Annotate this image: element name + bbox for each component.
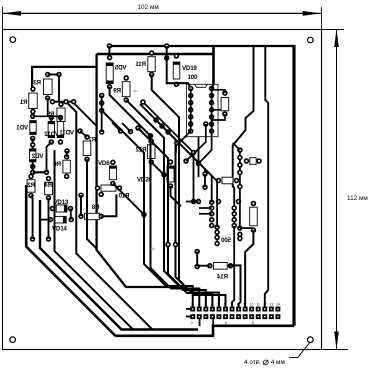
svg-text:2: 2 (198, 302, 200, 306)
svg-text:12: 12 (263, 302, 267, 306)
svg-text:102 мм: 102 мм (138, 4, 159, 11)
svg-text:R4: R4 (44, 182, 52, 189)
resistor R13 (221, 90, 229, 116)
wire: right meander long (265, 46, 268, 307)
wire: IC feed thick (212, 46, 215, 84)
node pad right of trace y46 (164, 43, 170, 49)
wire stub (112, 123, 121, 132)
node pad b2 (159, 123, 165, 129)
wire diode tops net y=117 (33, 115, 61, 117)
node pad column U3 left (214, 224, 220, 246)
diode VD1 (16, 114, 36, 142)
diode VD6 (98, 160, 116, 187)
wire pad109 to VD5 (108, 46, 110, 58)
wire: upper-left bus y=67 (32, 67, 97, 89)
node pad column U2 right (231, 203, 237, 228)
resistor R4 (44, 176, 53, 201)
diode VD13 (50, 199, 74, 212)
connector pin numbers bottom (191, 321, 254, 325)
resistor R16 (244, 158, 262, 165)
node pad (130.5,131.5) (128, 129, 134, 135)
resistor R6 (53, 154, 71, 179)
node pad b1 (153, 117, 159, 123)
wire x59 down (58, 75, 60, 102)
svg-text:7: 7 (230, 302, 232, 306)
wire: pad-to-pad trace y=46 (97, 53, 214, 55)
svg-text:5: 5 (217, 302, 219, 306)
resistor R15 (250, 201, 258, 233)
IC U1 body (187, 84, 219, 136)
wire IC pin mid down-left (186, 124, 206, 161)
wire x101.7 ext (101, 111, 103, 133)
wire long strand to pad column (143, 102, 194, 202)
pads column x=101.7 (99, 93, 105, 99)
svg-text:R3: R3 (33, 80, 41, 87)
wire bundle v5 (140, 104, 219, 307)
node pad (30, 142, 36, 148)
svg-text:VD13: VD13 (54, 199, 69, 206)
svg-text:6: 6 (225, 321, 227, 325)
node pad strand top (140, 99, 146, 105)
wire (80, 195, 82, 216)
wire node x166.7 down (164, 55, 170, 61)
wire U3 right to R15 bottom (240, 227, 253, 229)
wire strand b1 (156, 120, 205, 174)
svg-text:8: 8 (237, 302, 239, 306)
svg-text:8: 8 (252, 321, 254, 325)
board outline (3, 30, 322, 350)
wire IC left column feed (190, 89, 192, 132)
wire R3 bottom down (47, 98, 49, 116)
wire VD11 top stub (60, 116, 62, 121)
resistor R14 (207, 263, 233, 281)
wire bundle v4 (138, 128, 212, 307)
wire VD2 bottom to pad (32, 162, 34, 173)
wire y=201.5 (186, 201, 199, 203)
svg-text:R7: R7 (88, 137, 96, 144)
svg-text:VD12: VD12 (44, 131, 59, 138)
svg-text:41v: 41v (133, 89, 139, 93)
svg-text:VD1: VD1 (16, 125, 28, 132)
svg-text:VD2: VD2 (31, 153, 43, 160)
svg-text:R1: R1 (19, 99, 27, 106)
node pad column U3 right (237, 225, 243, 241)
svg-text:100: 100 (188, 74, 198, 81)
svg-text:VD11: VD11 (59, 129, 74, 136)
svg-text:VD6: VD6 (98, 160, 110, 167)
node pads y=201.5 (191, 199, 197, 205)
svg-text:41v: 41v (130, 200, 136, 204)
dimension extension line right (321, 7, 323, 30)
svg-text:R6: R6 (53, 161, 61, 168)
wire x88 from R7 (87, 159, 97, 248)
wire bundle v3 (126, 100, 206, 307)
svg-text:R2: R2 (27, 182, 35, 189)
svg-text:VD19: VD19 (182, 65, 197, 72)
node pad (44, 170, 50, 176)
resistor R7 (83, 134, 96, 162)
node pad pair x=205 (202, 171, 208, 190)
wire between (196, 252, 198, 267)
connector XP1 row 2 (190, 314, 280, 319)
diode VD19 (173, 53, 197, 87)
wire strand b3 (168, 132, 217, 227)
wire pair to R14 left (197, 265, 210, 267)
svg-text:13: 13 (270, 302, 274, 306)
resistor R5 (46, 102, 65, 128)
wire R4 bottom to via (48, 198, 50, 239)
wire from node to VD19 (166, 46, 168, 82)
wire: meander from top bus (233, 46, 254, 203)
node pad (71, 99, 77, 105)
dimension extension line bottom-right (322, 349, 349, 351)
wire x198.5 vertical (198, 137, 200, 177)
diode VD14 (48, 216, 74, 232)
svg-text:500: 500 (221, 237, 231, 244)
node via on v5 (173, 242, 179, 248)
wire stub (122, 123, 131, 132)
svg-text:3: 3 (204, 302, 206, 306)
diode VD2 (30, 149, 44, 169)
wire VD12 bottom to pad46 (47, 142, 52, 172)
svg-text:VD5: VD5 (114, 65, 126, 72)
wire diag center f (151, 162, 164, 175)
resistor R3 (33, 72, 52, 101)
wire VD14 left pad to Q (40, 219, 51, 221)
resistor R12 (135, 138, 155, 165)
wire diag center e (113, 184, 144, 215)
wire: bottom bus with step (115, 326, 294, 336)
wire (66, 151, 68, 157)
svg-text:1: 1 (191, 302, 193, 306)
dimension line 112 mm (334, 29, 339, 350)
node pad x59 (56, 72, 62, 78)
node pad b3 (165, 129, 171, 135)
node pad v4 top (135, 125, 141, 131)
wire IC pin right to meander (212, 109, 221, 111)
node via cluster midfield (141, 133, 201, 217)
mounting hole top-left (10, 37, 16, 43)
wire R13 top to IC (212, 90, 225, 93)
resistor R10 (95, 185, 130, 200)
wire R2 bottom to via (31, 196, 33, 240)
svg-text:R14: R14 (216, 274, 228, 281)
wire VD12 top stub (50, 116, 52, 121)
wire U2 feeds from left (199, 207, 212, 209)
wire: left long bus x=97 (97, 54, 186, 287)
node pads pair (194, 249, 200, 255)
wire: diagonal d3 (55, 150, 134, 330)
wire y=101.7 row (53, 101, 76, 103)
wire x=101.7 (101, 96, 103, 111)
wire R13 bottom (212, 114, 225, 120)
node pad chain x=239.9 (237, 147, 243, 228)
resistor R1 (19, 86, 37, 114)
resistor R2 (27, 174, 35, 199)
diode VD11 (57, 115, 74, 145)
node pad (98, 192, 104, 198)
wire R15 bottom down (245, 230, 253, 306)
wire VD13-VD14 right pads (70, 209, 72, 220)
wire (80, 131, 87, 137)
wire connector stubs down (199, 319, 201, 326)
dimension extension line top-right (322, 29, 345, 31)
diode VD5 (106, 55, 126, 90)
wire bundle v6 (152, 75, 226, 307)
svg-text:R11: R11 (135, 61, 146, 68)
node pad (120.5,131) (118, 128, 124, 134)
wire bundle to connector: v1 (102, 111, 193, 307)
wire: diagonal P from left column (26, 185, 115, 336)
dimension line 102 mm (3, 11, 322, 16)
svg-text:41v: 41v (173, 141, 179, 145)
wire left feeds to connector (186, 308, 191, 310)
wire R14 right down to connector (230, 265, 241, 306)
svg-text:9: 9 (243, 302, 245, 306)
svg-text:112 мм: 112 мм (347, 195, 368, 202)
wire strand b2 (162, 126, 212, 202)
node via (32.5,239) (30, 236, 36, 242)
diode VD12 (44, 115, 59, 145)
node pad left of trace y46 (107, 43, 113, 49)
wire VD1-VD2 column (32, 138, 34, 149)
note leader line (289, 343, 310, 358)
wire: right bus (292, 45, 295, 326)
node pad (63, 99, 69, 105)
svg-text:4: 4 (211, 302, 213, 306)
resistor R11 (135, 50, 155, 77)
svg-text:R8: R8 (91, 204, 99, 211)
svg-text:6: 6 (224, 302, 226, 306)
node via on v4 (165, 242, 171, 248)
svg-text:VD14: VD14 (52, 226, 67, 233)
diode VD20 (137, 159, 174, 189)
wire: top bus (109, 45, 294, 47)
node pad (101.7,132) (99, 129, 105, 135)
mounting hole bottom-left (10, 337, 16, 343)
wire chain top to T8 (233, 143, 240, 150)
resistor R8 (78, 204, 104, 220)
node pad (50, 99, 56, 105)
wire IC pin7 down-left (176, 131, 191, 153)
svg-text:10: 10 (250, 302, 254, 306)
svg-text:14: 14 (276, 302, 280, 306)
wire IC right column feed (211, 89, 213, 132)
node pad (30, 170, 36, 176)
wire: diagonal Q (40, 200, 198, 330)
IC U1 right pin column (209, 86, 215, 134)
wire R3 top to node (48, 74, 59, 76)
wire bundle v2 (110, 87, 200, 307)
wire VD20 bottom (171, 186, 182, 206)
svg-text:11: 11 (257, 302, 261, 306)
connector XP1 row 1 (190, 307, 280, 312)
dimension extension line left (2, 7, 4, 29)
wire y=173 thick (33, 171, 47, 173)
wire: x=76 long vertical to connector fan (66, 102, 152, 330)
wire U2 bottom to connector (232, 226, 234, 307)
svg-text:2: 2 (191, 321, 193, 325)
svg-text:41v: 41v (150, 247, 156, 251)
capacitor C1 (216, 177, 240, 184)
node via (48,239) (46, 236, 52, 242)
node pad (77, 128, 83, 134)
wire R8 right to bend (101, 194, 116, 216)
wire IC to top bus (212, 84, 214, 89)
IC U1 left pin column (188, 86, 194, 134)
node pad (64, 148, 70, 154)
node pad extra (203, 121, 209, 127)
resistor R9 (113, 75, 130, 103)
node pad column U2 left (209, 199, 215, 228)
connector pin numbers top (191, 302, 280, 306)
wire diagonal to x97 bus (74, 103, 97, 126)
node pad (78, 192, 84, 198)
mounting hole bottom-right (308, 337, 314, 343)
svg-text:R9: R9 (113, 88, 121, 95)
mounting hole top-right (308, 37, 314, 43)
wire IC pin8 down-left (199, 131, 212, 163)
